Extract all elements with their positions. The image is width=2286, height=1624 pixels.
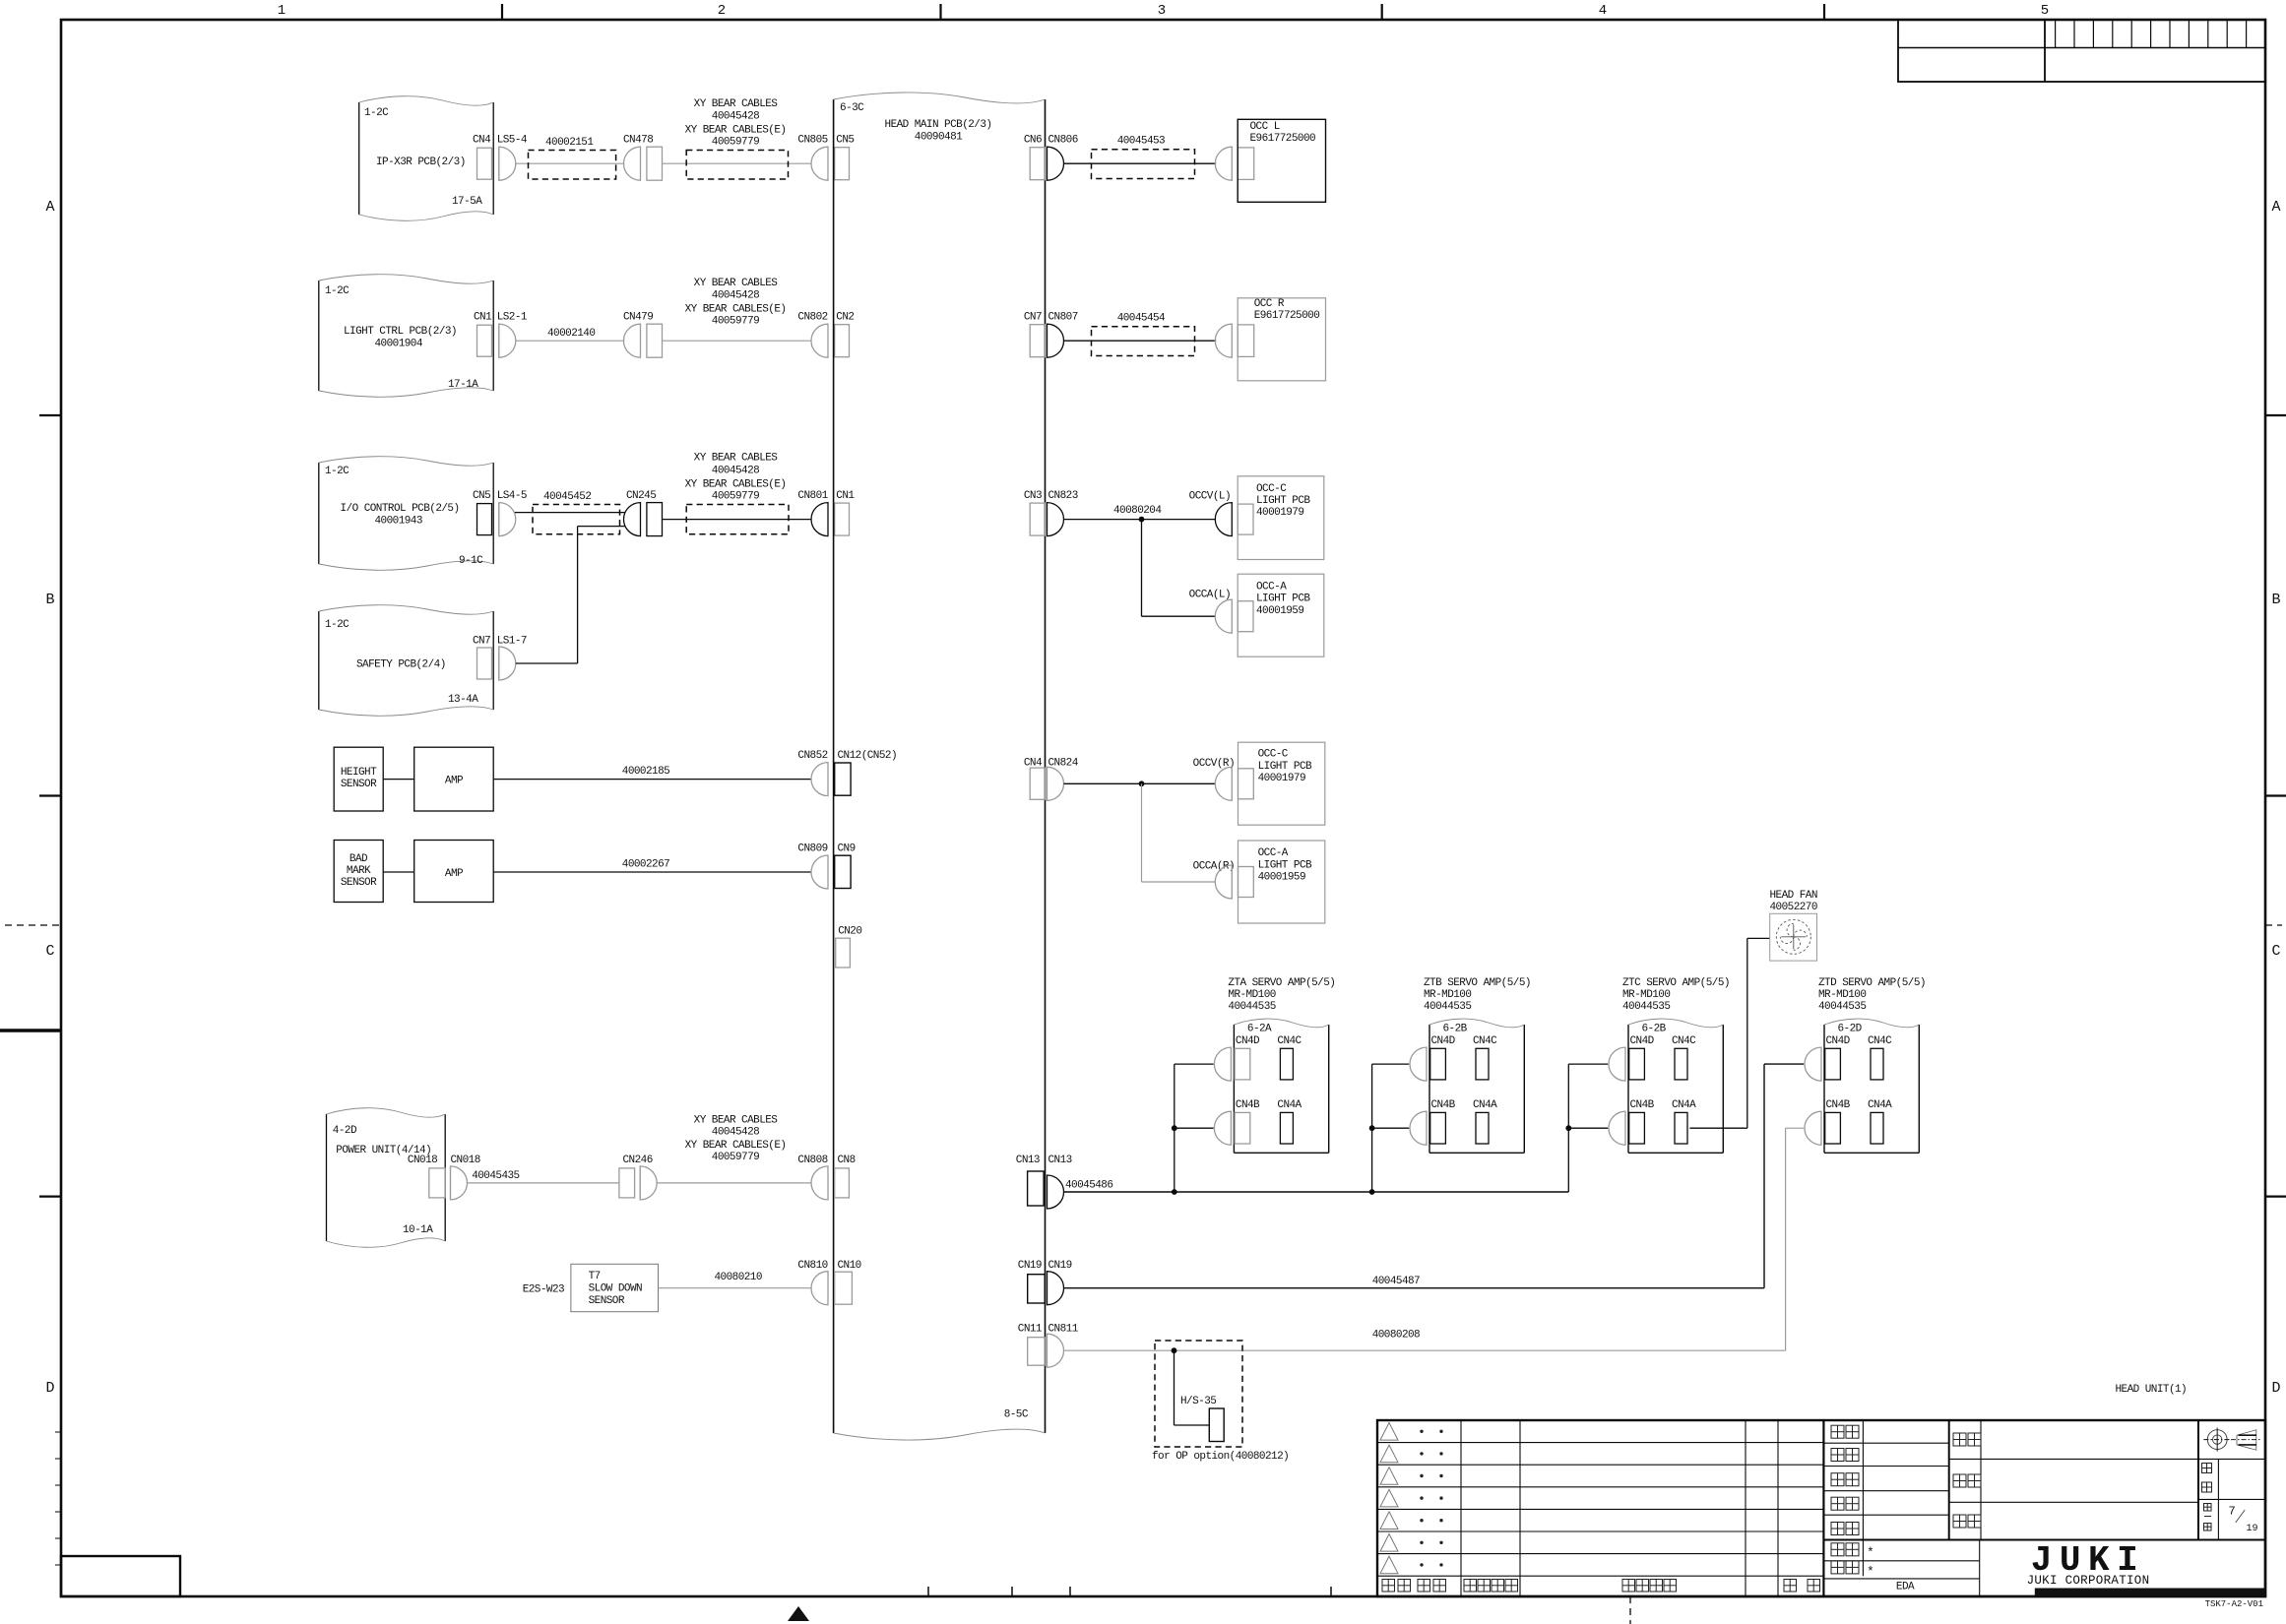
svg-text:6-2A: 6-2A [1247, 1024, 1272, 1035]
connector CN4B plug (ZTC) [1609, 1111, 1625, 1145]
connector CN852 [811, 763, 828, 796]
svg-text:CN4B: CN4B [1431, 1099, 1456, 1111]
wire 40045453 [1064, 162, 1217, 164]
connector CN805 [811, 147, 828, 180]
wire bus 40045486 [1064, 1191, 1569, 1193]
connector CN8 (main PCB) [835, 1168, 850, 1198]
svg-text:SAFETY PCB(2/4): SAFETY PCB(2/4) [356, 659, 446, 671]
PCB box LIGHT CTRL PCB(2/3) [318, 281, 320, 391]
connector CN018 (power unit edge) [429, 1168, 445, 1198]
dashed box OP option [1155, 1341, 1242, 1447]
svg-text:CN7: CN7 [473, 636, 490, 648]
svg-text:40045435: 40045435 [472, 1170, 519, 1182]
connector CN4D plug (ZTD) [1805, 1047, 1821, 1081]
svg-text:40045487: 40045487 [1372, 1276, 1420, 1287]
svg-text:T7: T7 [589, 1271, 601, 1282]
box OCC-A LIGHT PCB (R) [1238, 841, 1325, 923]
svg-text:OCCA(L): OCCA(L) [1189, 590, 1231, 601]
connector CN4 (IP-X3R edge) [477, 148, 492, 179]
svg-text:CN4C: CN4C [1277, 1035, 1302, 1047]
svg-text:ZTB SERVO AMP(5/5): ZTB SERVO AMP(5/5) [1424, 977, 1531, 989]
svg-text:1-2C: 1-2C [325, 466, 349, 477]
svg-text:*: * [1867, 1545, 1874, 1560]
svg-text:MR-MD100: MR-MD100 [1228, 989, 1275, 1001]
connector CN246 [619, 1168, 635, 1198]
title label kanji 作成 [1831, 1523, 1844, 1535]
svg-text:CN11: CN11 [1018, 1323, 1043, 1335]
svg-text:40059779: 40059779 [712, 1152, 759, 1163]
svg-text:CN6: CN6 [1024, 135, 1042, 147]
svg-text:E9617725000: E9617725000 [1254, 310, 1320, 322]
svg-text:CN12(CN52): CN12(CN52) [838, 750, 898, 762]
connector LS2-1 [498, 324, 500, 357]
svg-text:40001979: 40001979 [1258, 773, 1305, 784]
connector CN808 [811, 1166, 828, 1200]
revision header kanji 変更番号 [1464, 1580, 1477, 1593]
svg-text:40001943: 40001943 [375, 516, 422, 528]
svg-text:CN4D: CN4D [1826, 1035, 1851, 1047]
cable dashed box 40045454 [1092, 327, 1195, 356]
svg-text:40044535: 40044535 [1228, 1001, 1275, 1013]
title label kanji 保管 [1831, 1543, 1844, 1556]
connector CN810 [811, 1272, 828, 1305]
svg-text:CN8: CN8 [838, 1155, 856, 1166]
svg-text:XY BEAR CABLES(E): XY BEAR CABLES(E) [685, 303, 787, 315]
junction ZTB CN4B [1369, 1125, 1375, 1131]
svg-text:40059779: 40059779 [712, 137, 759, 149]
svg-text:17-5A: 17-5A [452, 196, 482, 208]
component HEAD FAN symbol [1770, 913, 1817, 961]
box OCC L [1238, 119, 1325, 202]
svg-text:CN4C: CN4C [1473, 1035, 1497, 1047]
svg-text:CN4C: CN4C [1672, 1035, 1696, 1047]
fold mark dashed bottom center [1629, 1596, 1631, 1624]
box T7 SLOW DOWN SENSOR [571, 1264, 659, 1311]
wire CN824 to OCCV(R) [1064, 782, 1216, 784]
wire feed ZTB CN4B [1372, 1127, 1410, 1129]
connector CN11 (main PCB) [1028, 1338, 1046, 1366]
zone ticks right border [2265, 414, 2286, 416]
connector CN4C (ZTB) [1476, 1048, 1489, 1080]
svg-text:LS2-1: LS2-1 [497, 312, 528, 324]
connector CN4A (ZTA) [1280, 1112, 1293, 1144]
connector CN6 (main PCB) [1030, 148, 1045, 180]
svg-text:OCC R: OCC R [1254, 298, 1285, 310]
connector CN245 [624, 503, 641, 536]
svg-text:40045454: 40045454 [1117, 312, 1166, 324]
connector CN4A (ZTD) [1871, 1112, 1883, 1144]
wire feed ZTC CN4B [1568, 1127, 1608, 1129]
box HEIGHT SENSOR [334, 747, 383, 811]
title label kanji 尺度 [2202, 1464, 2212, 1473]
connector CN4B plug (ZTB) [1410, 1111, 1427, 1145]
junction ZTB bus [1369, 1189, 1375, 1195]
svg-text:OCCV(L): OCCV(L) [1189, 491, 1231, 503]
svg-text:7: 7 [2229, 1505, 2236, 1519]
title label kanji 設計 [1831, 1473, 1844, 1486]
svg-text:40001959: 40001959 [1256, 605, 1303, 617]
svg-text:H/S-35: H/S-35 [1180, 1396, 1216, 1407]
junction CN824 branch [1139, 781, 1145, 786]
svg-text:LIGHT PCB: LIGHT PCB [1258, 761, 1312, 773]
svg-text:6-2D: 6-2D [1838, 1024, 1863, 1035]
connector CN1 (LIGHT CTRL edge) [477, 325, 492, 356]
svg-text:40044535: 40044535 [1622, 1001, 1670, 1013]
svg-text:40045428: 40045428 [712, 110, 759, 122]
box OCC R [1238, 298, 1325, 381]
wire H/S-35 branch [1174, 1350, 1175, 1425]
connector CN4B (ZTC) [1629, 1112, 1645, 1144]
svg-text:LIGHT PCB: LIGHT PCB [1256, 495, 1310, 507]
wire 40080208 [1064, 1349, 1786, 1351]
revision header kanji 担当 [1784, 1580, 1797, 1593]
svg-text:40080208: 40080208 [1372, 1330, 1420, 1342]
connector CN7 (SAFETY edge) [477, 648, 492, 679]
svg-text:40045452: 40045452 [543, 491, 591, 503]
svg-text:LIGHT PCB: LIGHT PCB [1256, 593, 1310, 605]
connector H/S-35 [1209, 1408, 1224, 1442]
connector OCCA(L) [1215, 599, 1232, 633]
servo amp ZTD box [1823, 1025, 1825, 1153]
svg-text:40045428: 40045428 [712, 289, 759, 301]
revision header kanji 記号 日付 [1382, 1580, 1395, 1593]
svg-text:I/O CONTROL PCB(2/5): I/O CONTROL PCB(2/5) [341, 503, 460, 515]
connector CN9 (main PCB) [835, 855, 851, 888]
svg-text:CN5: CN5 [836, 135, 854, 147]
svg-text:CN807: CN807 [1048, 312, 1078, 324]
svg-text:CN4D: CN4D [1630, 1035, 1655, 1047]
svg-text:CN802: CN802 [797, 312, 827, 324]
connector CN802 [811, 324, 828, 357]
svg-text:40002140: 40002140 [547, 328, 595, 340]
bottom center alignment triangle [788, 1606, 809, 1621]
svg-text:CN808: CN808 [797, 1155, 827, 1166]
connector CN3 (main PCB) [1030, 503, 1045, 535]
svg-text:CN4A: CN4A [1672, 1099, 1696, 1111]
svg-text:CN809: CN809 [797, 843, 827, 855]
wire 40002267 [493, 871, 811, 873]
svg-text:40059779: 40059779 [712, 316, 759, 328]
cable dashed box 40059779 (row1) [686, 151, 788, 180]
svg-text:OCCA(R): OCCA(R) [1193, 860, 1235, 872]
svg-text:CN1: CN1 [474, 312, 492, 324]
title block revision table grid [1377, 1420, 2265, 1596]
wire 40045435 [468, 1182, 619, 1184]
title label kanji 製図 [1831, 1497, 1844, 1510]
svg-text:6-2B: 6-2B [1642, 1024, 1667, 1035]
svg-text:SENSOR: SENSOR [341, 877, 377, 889]
svg-text:CN13: CN13 [1048, 1155, 1072, 1166]
servo amp ZTA box [1233, 1025, 1235, 1153]
svg-text:HEIGHT: HEIGHT [341, 767, 377, 779]
svg-text:3: 3 [1158, 3, 1166, 19]
svg-text:B: B [45, 592, 54, 608]
zone ticks top border [501, 4, 503, 20]
wire 40080210 [659, 1287, 812, 1289]
connector CN806 [1048, 147, 1064, 180]
box OCC-C LIGHT PCB (L) [1238, 476, 1324, 560]
title block model/part section grid [1980, 1420, 1982, 1540]
connector CN4B plug (ZTD) [1805, 1111, 1821, 1145]
svg-text:MR-MD100: MR-MD100 [1818, 989, 1866, 1001]
connector OCCA(R) [1215, 865, 1232, 899]
svg-text:LS5-4: LS5-4 [497, 135, 528, 147]
connector CN2 (main PCB) [835, 325, 850, 357]
connector CN13 (main PCB) [1028, 1171, 1045, 1206]
cable dashed box 40002151 [529, 151, 616, 180]
svg-text:1-2C: 1-2C [325, 285, 349, 297]
wire CN245 to CN801 [663, 519, 812, 521]
svg-text:OCC L: OCC L [1250, 121, 1280, 133]
connector CN19 plug [1048, 1272, 1064, 1305]
svg-text:CN4A: CN4A [1277, 1099, 1302, 1111]
connector CN4D (ZTB) [1430, 1048, 1446, 1080]
bottom-left small box [61, 1556, 180, 1596]
svg-text:CN19: CN19 [1048, 1260, 1072, 1272]
connector CN823 [1048, 503, 1064, 536]
connector CN20 (main PCB) [836, 938, 851, 968]
top-right reference grid box [1898, 20, 2265, 82]
svg-text:HEAD MAIN PCB(2/3): HEAD MAIN PCB(2/3) [885, 119, 992, 131]
svg-text:40045453: 40045453 [1117, 135, 1165, 147]
svg-text:MR-MD100: MR-MD100 [1622, 989, 1670, 1001]
wire HEIGHT SENSOR to AMP [383, 779, 414, 781]
svg-text:XY BEAR CABLES: XY BEAR CABLES [694, 278, 779, 289]
junction ZTC CN4B [1565, 1125, 1571, 1131]
svg-text:CN4B: CN4B [1826, 1099, 1851, 1111]
PCB box IP-X3R PCB(2/3) [358, 102, 360, 215]
cable dashed box 40045452 [533, 505, 620, 534]
connector LS5-4 [498, 147, 500, 180]
svg-text:OCC-C: OCC-C [1258, 749, 1289, 761]
wire LS5-4 to CN478 [516, 162, 624, 164]
svg-text:40052270: 40052270 [1770, 902, 1817, 913]
svg-text:10-1A: 10-1A [403, 1224, 433, 1236]
svg-text:1-2C: 1-2C [364, 107, 389, 119]
svg-text:CN246: CN246 [623, 1155, 653, 1166]
svg-text:AMP: AMP [445, 776, 464, 787]
connector OCC R input [1215, 324, 1232, 357]
title block approval section grid [1862, 1420, 1864, 1576]
title label kanji 検図 [1831, 1449, 1844, 1462]
wire 40002185 [493, 779, 811, 781]
wire CN824 branch down [1141, 783, 1143, 882]
wire feed ZTA CN4B [1175, 1127, 1214, 1129]
svg-text:OCC-A: OCC-A [1258, 847, 1289, 859]
box OCC-A LIGHT PCB (L) [1238, 574, 1324, 656]
svg-text:40045428: 40045428 [712, 1127, 759, 1139]
wire 40045454 [1064, 340, 1217, 342]
svg-text:CN478: CN478 [623, 135, 653, 147]
svg-text:17-1A: 17-1A [448, 379, 478, 391]
connector CN811 [1048, 1334, 1064, 1367]
svg-text:5: 5 [2041, 3, 2049, 19]
wire feed ZTA CN4D [1175, 1063, 1214, 1065]
svg-text:CN20: CN20 [838, 926, 861, 938]
fold mark solid left [0, 1029, 61, 1032]
svg-text:2: 2 [718, 3, 726, 19]
svg-text:CN5: CN5 [473, 490, 490, 502]
svg-text:MR-MD100: MR-MD100 [1424, 989, 1471, 1001]
connector CN4B plug (ZTA) [1214, 1111, 1231, 1145]
svg-text:EDA: EDA [1896, 1582, 1915, 1593]
bottom border tick marks [927, 1587, 929, 1596]
title label ページ [2204, 1504, 2212, 1512]
svg-text:LS4-5: LS4-5 [497, 490, 527, 502]
svg-text:BAD: BAD [349, 853, 368, 865]
svg-text:CN805: CN805 [797, 135, 827, 147]
svg-text:CN810: CN810 [797, 1260, 827, 1272]
svg-text:40045486: 40045486 [1065, 1180, 1112, 1192]
wire ZTC CN4A to HEAD FAN [1689, 1127, 1746, 1129]
wire branch safety to CN245 [578, 526, 625, 528]
svg-text:XY BEAR CABLES: XY BEAR CABLES [694, 453, 779, 465]
connector CN4D plug (ZTA) [1214, 1047, 1231, 1081]
svg-text:XY BEAR CABLES: XY BEAR CABLES [694, 1114, 779, 1126]
svg-text:CN4B: CN4B [1236, 1099, 1260, 1111]
svg-text:CN7: CN7 [1024, 312, 1042, 324]
connector CN807 [1048, 324, 1064, 357]
svg-text:CN2: CN2 [836, 312, 854, 324]
svg-text:AMP: AMP [445, 868, 464, 880]
svg-text:CN801: CN801 [797, 490, 828, 502]
svg-text:CN4A: CN4A [1473, 1099, 1497, 1111]
svg-text:C: C [45, 943, 54, 960]
box AMP (bad mark) [414, 841, 494, 903]
svg-text:CN4C: CN4C [1868, 1035, 1892, 1047]
svg-text:CN852: CN852 [797, 750, 827, 762]
junction CN823 branch [1139, 517, 1145, 523]
svg-text:CN4: CN4 [473, 135, 491, 147]
zone ticks left border [39, 414, 61, 416]
connector CN4A (ZTC) [1675, 1112, 1687, 1144]
connector LS1-7 [498, 647, 500, 680]
svg-text:13-4A: 13-4A [448, 694, 478, 706]
connector OCC L input [1215, 147, 1232, 180]
PCB box I/O CONTROL PCB(2/5) [318, 463, 320, 564]
connector OCCV(L) [1215, 503, 1232, 536]
connector CN479 [624, 324, 641, 357]
wire LS2-1 to CN479 [516, 340, 624, 342]
svg-text:LIGHT PCB: LIGHT PCB [1258, 859, 1312, 871]
svg-text:SENSOR: SENSOR [589, 1295, 625, 1307]
third angle projection symbol [2207, 1430, 2227, 1450]
connector CN19 (main PCB) [1028, 1275, 1046, 1303]
connector CN4B (ZTA) [1235, 1112, 1250, 1144]
fold mark dashed right [2265, 924, 2282, 926]
box OCC-C LIGHT PCB (R) [1238, 742, 1325, 825]
connector CN478 [624, 147, 641, 180]
svg-text:CN018: CN018 [408, 1155, 437, 1166]
cable dashed box 40059779 (row3) [686, 505, 789, 534]
svg-text:CN19: CN19 [1018, 1260, 1042, 1272]
svg-text:XY BEAR CABLES(E): XY BEAR CABLES(E) [685, 124, 787, 136]
connector CN4C (ZTC) [1675, 1048, 1687, 1080]
connector CN13 plug [1048, 1175, 1064, 1209]
svg-text:CN10: CN10 [838, 1260, 861, 1272]
svg-text:CN9: CN9 [838, 843, 856, 855]
svg-text:CN13: CN13 [1016, 1155, 1040, 1166]
wire CN478 to CN805 [663, 162, 812, 164]
svg-text:LIGHT CTRL PCB(2/3): LIGHT CTRL PCB(2/3) [344, 326, 457, 338]
svg-text:CN479: CN479 [623, 312, 653, 324]
svg-text:CN4D: CN4D [1431, 1035, 1456, 1047]
connector CN018 plug [450, 1166, 452, 1200]
title label kanji 承認 [1831, 1425, 1844, 1438]
svg-text:4-2D: 4-2D [333, 1125, 357, 1137]
svg-text:6-3C: 6-3C [840, 102, 864, 114]
connector CN4D (ZTA) [1235, 1048, 1250, 1080]
left border minor ticks below D [55, 1431, 61, 1433]
svg-text:CN4A: CN4A [1868, 1099, 1892, 1111]
svg-text:CN4D: CN4D [1236, 1035, 1260, 1047]
svg-text:19: 19 [2247, 1524, 2258, 1534]
connector CN4C (ZTD) [1871, 1048, 1883, 1080]
wire LS1-7 to branch [516, 662, 578, 664]
connector CN4A (ZTB) [1476, 1112, 1489, 1144]
connector CN801 [811, 503, 828, 536]
svg-text:40059779: 40059779 [712, 491, 759, 503]
connector CN4B (ZTB) [1430, 1112, 1446, 1144]
connector CN12(CN52) (main PCB) [835, 763, 851, 795]
connector CN10 (main PCB) [835, 1272, 853, 1304]
svg-text:40002185: 40002185 [622, 766, 669, 778]
svg-text:SENSOR: SENSOR [341, 779, 377, 790]
svg-text:*: * [1867, 1565, 1874, 1580]
revision table triangle rows [1380, 1423, 1398, 1441]
connector CN5 (I/O edge) [477, 504, 492, 535]
svg-text:40044535: 40044535 [1818, 1001, 1866, 1013]
svg-text:OCC-A: OCC-A [1256, 582, 1287, 593]
svg-text:40001904: 40001904 [375, 339, 423, 350]
wire BAD MARK to AMP [383, 871, 414, 873]
wire feed ZTC CN4D [1568, 1063, 1608, 1065]
PCB box HEAD MAIN PCB(2/3) [833, 99, 835, 1433]
svg-text:CN245: CN245 [626, 490, 656, 502]
svg-text:CN811: CN811 [1048, 1323, 1079, 1335]
svg-text:40044535: 40044535 [1424, 1001, 1471, 1013]
svg-text:ZTA SERVO AMP(5/5): ZTA SERVO AMP(5/5) [1228, 977, 1335, 989]
svg-text:ZTD SERVO AMP(5/5): ZTD SERVO AMP(5/5) [1818, 977, 1926, 989]
wire CN823 branch down [1141, 520, 1143, 617]
svg-text:CN3: CN3 [1024, 490, 1042, 502]
svg-text:E2S-W23: E2S-W23 [523, 1284, 564, 1296]
svg-text:JUKI CORPORATION: JUKI CORPORATION [2027, 1574, 2150, 1588]
svg-text:8-5C: 8-5C [1004, 1409, 1029, 1421]
svg-text:CN4B: CN4B [1630, 1099, 1655, 1111]
connector CN4D plug (ZTC) [1609, 1047, 1625, 1081]
svg-text:40001959: 40001959 [1258, 872, 1305, 884]
title label kanji 品名 [1953, 1515, 1966, 1528]
connector CN809 [811, 855, 828, 889]
svg-text:SLOW DOWN: SLOW DOWN [589, 1283, 642, 1295]
svg-text:40080204: 40080204 [1113, 505, 1162, 517]
connector OCCV(R) [1215, 767, 1232, 800]
box AMP (height) [414, 747, 494, 811]
connector LS4-5 [498, 503, 500, 536]
junction ZTA CN4B [1172, 1125, 1177, 1131]
svg-text:A: A [2271, 199, 2280, 216]
connector CN4D plug (ZTB) [1410, 1047, 1427, 1081]
cable dashed box 40045453 [1092, 150, 1195, 179]
svg-text:A: A [45, 199, 54, 216]
svg-text:HEAD UNIT(1): HEAD UNIT(1) [2116, 1384, 2188, 1396]
PCB box SAFETY PCB(2/4) [318, 611, 320, 710]
connector CN4B (ZTD) [1825, 1112, 1841, 1144]
svg-text:CN018: CN018 [451, 1155, 480, 1166]
svg-text:9-1C: 9-1C [459, 555, 483, 567]
title label kanji 品番 [1953, 1474, 1966, 1487]
